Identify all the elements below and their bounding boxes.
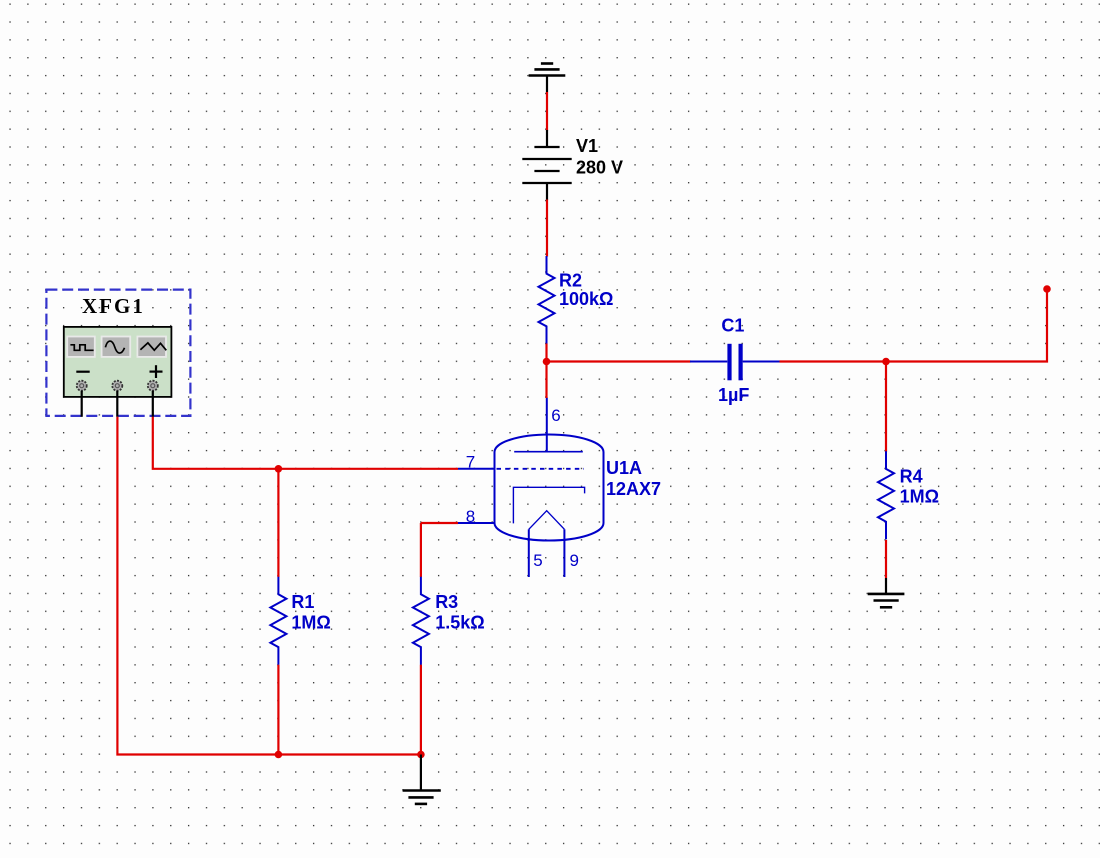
svg-text:5: 5 bbox=[533, 551, 542, 570]
function generator XFG1 bbox=[46, 290, 190, 417]
label V1 280 V bbox=[576, 136, 623, 178]
terminal common bbox=[112, 381, 122, 391]
battery V1 bbox=[522, 130, 571, 200]
wire bbox=[885, 540, 887, 578]
wire bbox=[421, 522, 458, 524]
resistor R3 bbox=[413, 577, 429, 665]
label R3 1.5kΩ bbox=[435, 592, 484, 632]
pin 6 (anode pin) bbox=[546, 398, 548, 452]
svg-text:XFG1: XFG1 bbox=[82, 294, 145, 318]
node (output terminal endpoint) bbox=[1043, 285, 1051, 293]
plus sign bbox=[150, 371, 163, 373]
terminal + bbox=[148, 381, 158, 391]
svg-text:R4: R4 bbox=[900, 467, 923, 487]
sine wave button bbox=[102, 337, 131, 357]
junction (grid node at R1) bbox=[275, 465, 283, 473]
ground (bottom, below R3) bbox=[403, 755, 441, 804]
resistor R1 bbox=[270, 577, 286, 665]
label R1 1MΩ bbox=[291, 592, 330, 632]
svg-text:100kΩ: 100kΩ bbox=[559, 289, 613, 309]
minus sign bbox=[76, 371, 89, 373]
pin 7 (grid pin) bbox=[458, 468, 495, 470]
pin stub - bbox=[81, 391, 83, 417]
wire bbox=[420, 523, 422, 577]
pin 5 (heater pin) bbox=[528, 529, 530, 577]
pin 9 (heater pin) bbox=[563, 529, 565, 577]
ground (below R4) bbox=[868, 578, 905, 607]
selection box bbox=[46, 290, 190, 416]
wire bbox=[886, 289, 1047, 362]
triangle wave button bbox=[137, 337, 166, 357]
svg-text:R1: R1 bbox=[291, 592, 314, 612]
label R2 100kΩ bbox=[559, 271, 613, 310]
svg-text:R2: R2 bbox=[559, 271, 582, 291]
label U1A 12AX7 bbox=[606, 458, 661, 499]
wire bbox=[277, 665, 279, 755]
label C1 1µF bbox=[718, 316, 749, 405]
wire bbox=[547, 360, 691, 362]
wire bbox=[780, 360, 887, 362]
pin stub + bbox=[152, 391, 154, 417]
square wave button bbox=[67, 337, 95, 357]
svg-text:R3: R3 bbox=[435, 592, 458, 612]
junction (bottom rail at R1) bbox=[275, 751, 283, 759]
control grid (dashed) bbox=[497, 468, 585, 470]
instrument panel bbox=[64, 327, 172, 397]
triode U1A (12AX7 envelope) bbox=[495, 435, 604, 541]
svg-text:1µF: 1µF bbox=[718, 385, 749, 405]
wire bbox=[546, 200, 548, 257]
svg-text:12AX7: 12AX7 bbox=[606, 479, 661, 499]
svg-text:8: 8 bbox=[466, 507, 475, 526]
capacitor C1 bbox=[690, 344, 780, 381]
resistor R4 bbox=[878, 451, 894, 539]
junction (output node at R4) bbox=[882, 358, 890, 366]
svg-text:6: 6 bbox=[551, 406, 560, 425]
wire bbox=[545, 344, 547, 362]
svg-text:U1A: U1A bbox=[606, 458, 642, 478]
heater filament bbox=[529, 511, 565, 530]
svg-text:280 V: 280 V bbox=[576, 158, 623, 178]
svg-text:C1: C1 bbox=[721, 316, 744, 336]
pin 8 (cathode pin) bbox=[458, 522, 495, 524]
wire bbox=[277, 469, 279, 577]
label R4 1MΩ bbox=[900, 467, 939, 507]
wire bbox=[545, 362, 547, 399]
svg-text:1MΩ: 1MΩ bbox=[900, 486, 939, 506]
wire bbox=[546, 92, 548, 131]
wire bbox=[885, 362, 887, 452]
cathode bbox=[513, 487, 584, 523]
anode plate bbox=[514, 451, 583, 453]
svg-text:V1: V1 bbox=[576, 136, 598, 156]
svg-text:7: 7 bbox=[466, 453, 475, 472]
svg-text:9: 9 bbox=[570, 551, 579, 570]
ground (top, above V1) bbox=[529, 64, 566, 93]
resistor R2 bbox=[539, 256, 555, 344]
wire bbox=[153, 417, 458, 469]
junction (plate output node) bbox=[543, 358, 551, 366]
wire bbox=[420, 665, 422, 755]
pin stub common bbox=[116, 391, 118, 417]
wire bbox=[117, 417, 421, 755]
junction (bottom rail at R3 / ground) bbox=[417, 751, 425, 759]
terminal - bbox=[77, 381, 87, 391]
svg-text:1MΩ: 1MΩ bbox=[291, 612, 330, 632]
svg-text:1.5kΩ: 1.5kΩ bbox=[435, 612, 484, 632]
